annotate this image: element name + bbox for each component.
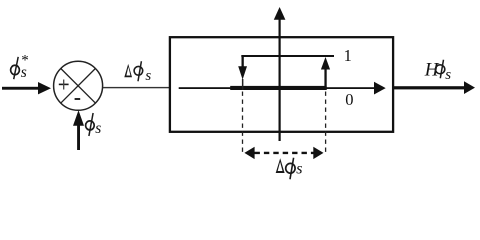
band label delta phi_s <box>276 158 303 180</box>
svg-text:1: 1 <box>344 46 352 65</box>
summing junction cross line 1 <box>61 69 96 104</box>
svg-text:0: 0 <box>345 90 353 109</box>
hysteresis block rectangle <box>170 37 393 132</box>
wire label delta phi_s <box>124 61 151 84</box>
svg-text:s: s <box>445 67 451 83</box>
plus sign <box>59 80 69 90</box>
input label phi_s* <box>11 53 29 81</box>
input arrow phi_s* <box>2 82 51 94</box>
wire delta phi_s from summing junction to block <box>103 87 170 88</box>
upper level line (1) <box>241 55 334 57</box>
summing junction circle <box>54 61 103 110</box>
down transition arrow <box>238 56 247 90</box>
output label H phi_s <box>424 60 451 84</box>
zero level thick segment <box>230 86 326 90</box>
feedback arrow phi_s <box>73 110 84 150</box>
summing junction cross line 2 <box>61 69 96 104</box>
svg-text:s: s <box>145 68 151 84</box>
up transition arrow <box>321 57 330 90</box>
vertical axis <box>274 7 286 141</box>
feedback label phi_s <box>86 113 102 137</box>
horizontal axis <box>179 82 386 95</box>
minus sign <box>75 98 81 100</box>
output arrow H phi_s <box>394 81 475 94</box>
dashed line right switch point <box>325 92 327 153</box>
svg-text:H: H <box>424 60 440 81</box>
svg-text:s: s <box>21 64 27 81</box>
svg-text:s: s <box>95 120 101 137</box>
hysteresis band double arrow <box>244 147 323 159</box>
svg-text:s: s <box>296 161 302 178</box>
dashed line left switch point <box>242 92 244 153</box>
